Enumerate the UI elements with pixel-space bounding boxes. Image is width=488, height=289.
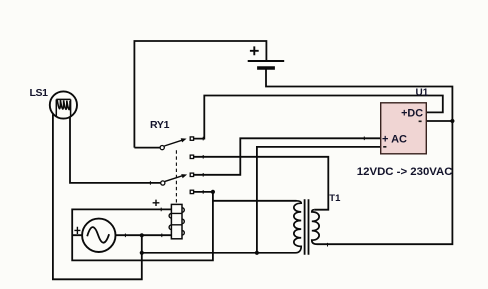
- svg-text:T1: T1: [329, 193, 341, 204]
- svg-text:RY1: RY1: [150, 119, 170, 131]
- svg-text:U1: U1: [416, 87, 429, 98]
- svg-text:LS1: LS1: [30, 87, 49, 99]
- svg-text:12VDC -> 230VAC: 12VDC -> 230VAC: [357, 166, 453, 178]
- svg-text:+ AC: + AC: [382, 134, 407, 146]
- svg-text:+DC: +DC: [401, 108, 423, 120]
